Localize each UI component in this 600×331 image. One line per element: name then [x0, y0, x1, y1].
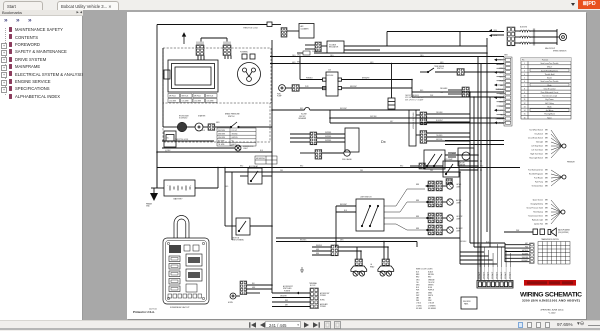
svg-text:BLU: BLU: [486, 242, 489, 244]
svg-text:BRN: BRN: [545, 178, 548, 180]
bookmark icon: MAINFRAME: [9, 64, 12, 69]
engine label rows: [168, 94, 217, 103]
svg-text:BLU/BRN: BLU/BRN: [522, 253, 528, 255]
bookmarks tree: [5, 28, 6, 95]
svg-text:Fuel Solenoid Drive: Fuel Solenoid Drive: [528, 169, 543, 172]
wire: [492, 34, 504, 36]
bookmarks panel: [0, 10, 83, 320]
wire: [227, 56, 229, 60]
svg-text:WIRE COLOR CODES: WIRE COLOR CODES: [416, 269, 432, 271]
svg-text:Circuit Break Switch: Circuit Break Switch: [528, 137, 543, 140]
svg-text:WHT/BLK: WHT/BLK: [522, 250, 528, 252]
wire: [412, 91, 504, 93]
svg-text:CLEANER: CLEANER: [301, 28, 310, 31]
wire: [329, 110, 331, 123]
svg-text:BLK: BLK: [252, 283, 255, 285]
fuel pump: [279, 85, 286, 92]
nav buttons: [246, 320, 346, 330]
wire: [247, 292, 260, 294]
wire: [239, 126, 272, 128]
svg-text:RED/BLK: RED/BLK: [460, 241, 466, 243]
wire: [310, 109, 420, 111]
connector speed sensor C5: [507, 27, 515, 46]
air cleaner box: [299, 24, 314, 39]
red stamp: [524, 280, 576, 286]
svg-text:RED WIRE: RED WIRE: [218, 130, 225, 132]
wire: [445, 154, 478, 156]
wire: [459, 172, 461, 220]
wire: [290, 137, 310, 139]
svg-text:Spare: Spare: [547, 116, 552, 119]
svg-text:BLU/WHT: BLU/WHT: [436, 120, 443, 122]
svg-text:LT BLU: LT BLU: [416, 303, 421, 305]
wire: [322, 152, 344, 154]
svg-text:4: 4: [524, 74, 525, 76]
wire: [505, 244, 530, 246]
page sheet: [127, 12, 586, 319]
svg-text:Dash Wires/Brightness: Dash Wires/Brightness: [541, 69, 558, 72]
wire main bus: [157, 167, 520, 169]
svg-text:POWER: POWER: [320, 306, 327, 308]
wire: [427, 121, 470, 123]
wire: [411, 80, 413, 98]
svg-text:GRN: GRN: [230, 145, 233, 147]
svg-text:8: 8: [524, 88, 525, 90]
wire vertical x272 lower: [271, 168, 273, 294]
svg-text:Fuel Heater: Fuel Heater: [534, 177, 543, 180]
backup alarm: [533, 228, 556, 236]
svg-text:THROTTLE LOCK: THROTTLE LOCK: [175, 139, 189, 141]
wire: [442, 185, 446, 187]
svg-text:SWITCH: SWITCH: [228, 116, 235, 118]
svg-text:Throttle Hold: Throttle Hold: [545, 73, 555, 76]
svg-text:LH STOP: LH STOP: [456, 216, 462, 218]
wire: [448, 93, 462, 95]
svg-text:METER: METER: [460, 165, 466, 167]
svg-text:PRESSURE: PRESSURE: [567, 162, 575, 164]
svg-text:SOLENOID: SOLENOID: [179, 118, 188, 120]
wire: [272, 24, 281, 26]
svg-text:BLU: BLU: [416, 287, 419, 289]
svg-text:12V OUT: 12V OUT: [232, 130, 238, 132]
wire: [287, 30, 299, 32]
coil core marks: [532, 29, 534, 46]
svg-text:CIRCUIT: CIRCUIT: [299, 116, 305, 118]
wire: [247, 288, 272, 290]
wire: [230, 56, 232, 60]
wire bottom feed: [460, 255, 488, 257]
svg-text:Ignition Rail: Ignition Rail: [534, 223, 543, 226]
wire: [464, 71, 504, 73]
connector relay K2: [446, 179, 452, 185]
wire: [387, 31, 504, 33]
svg-text:RED/WHT: RED/WHT: [340, 204, 347, 206]
wire bus2: [225, 171, 460, 173]
wire: [317, 133, 345, 135]
wire: [445, 160, 478, 162]
svg-text:Horn Backup: Horn Backup: [533, 211, 543, 214]
connector tail 1b: [436, 181, 442, 191]
wire: [445, 140, 504, 142]
wire: [336, 211, 356, 213]
wire: [427, 140, 470, 142]
wire: [272, 292, 310, 294]
arrows: [489, 29, 492, 32]
connector canopy: [462, 87, 469, 97]
connector fuel gauge: [315, 150, 322, 160]
svg-text:WHT/BRL: WHT/BRL: [325, 136, 331, 138]
wire: [387, 247, 389, 259]
wire: [459, 169, 478, 171]
wire: [470, 242, 505, 244]
svg-text:GRD-T: GRD-T: [547, 67, 552, 69]
wire: [420, 71, 428, 73]
svg-text:GROUNDING: GROUNDING: [256, 158, 265, 160]
grounding table: [255, 156, 277, 164]
svg-text:GRY: GRY: [416, 292, 419, 294]
wire: [305, 48, 315, 50]
wire: [336, 205, 356, 207]
svg-text:Talk Light: Talk Light: [536, 141, 544, 144]
svg-text:BLK WIRE: BLK WIRE: [218, 141, 225, 143]
svg-text:BRN/WHT: BRN/WHT: [350, 86, 357, 88]
svg-text:Spare Screen: Spare Screen: [533, 199, 543, 202]
svg-text:Terminate Bare: Terminate Bare: [532, 185, 544, 188]
wire bottom feed: [460, 263, 497, 265]
svg-text:Transmission Green: Transmission Green: [528, 215, 543, 218]
wire: [505, 261, 530, 263]
svg-text:Screw Pressure Tooth: Screw Pressure Tooth: [527, 207, 544, 210]
svg-text:RED/BLK: RED/BLK: [300, 240, 306, 242]
svg-text:BRN: BRN: [545, 200, 548, 202]
wire: [299, 87, 326, 89]
wire: [157, 151, 272, 153]
fuse panel handle: [174, 216, 189, 238]
connector fuel pump: [292, 85, 299, 92]
svg-text:V-1202: V-1202: [549, 312, 557, 314]
svg-text:SPK PLUG: SPK PLUG: [169, 96, 176, 98]
wire: [448, 89, 462, 91]
svg-text:BRN: BRN: [545, 150, 548, 152]
connector tail 3b: [436, 213, 442, 223]
inline fuse: [303, 51, 310, 55]
wire: [162, 108, 164, 127]
flywheel alternator: [238, 54, 261, 86]
svg-text:FUSE/RELAY LAYOUT: FUSE/RELAY LAYOUT: [170, 306, 190, 309]
wire: [515, 30, 520, 32]
wire: [416, 242, 418, 248]
svg-text:COIL WIRE: COIL WIRE: [194, 101, 201, 103]
wiring color mini table: [217, 128, 256, 146]
wire: [195, 187, 218, 189]
svg-text:9: 9: [524, 92, 525, 94]
svg-text:Printed in U.S.A.: Printed in U.S.A.: [133, 310, 155, 314]
connector TPS A: [420, 112, 427, 125]
fuel canister: [164, 131, 176, 147]
wire: [504, 243, 506, 262]
bookmark icon: SAFETY &amp; MAINTENANCE: [9, 49, 12, 54]
svg-text:GRY: GRY: [390, 121, 393, 123]
connector twin sense: [457, 69, 464, 76]
light switch: [356, 199, 384, 231]
status bar: [0, 320, 600, 331]
wire: [459, 165, 478, 167]
wire: [262, 175, 272, 177]
svg-text:BRN: BRN: [416, 274, 419, 276]
svg-text:Left Turn Beam: Left Turn Beam: [531, 149, 543, 152]
tab bar: [0, 0, 600, 11]
svg-text:Key Power: Key Power: [545, 98, 554, 101]
svg-text:3200 (S/N AJNS11001 AND ABOVE): 3200 (S/N AJNS11001 AND ABOVE): [522, 299, 580, 303]
svg-text:GROUND: GROUND: [232, 133, 238, 135]
bookmark icon: ELECTRICAL SYSTEM &amp; ANALYSIS: [9, 71, 12, 76]
svg-text:BLK: BLK: [452, 153, 455, 155]
svg-text:WHT/BRL: WHT/BRL: [325, 140, 331, 142]
wire: [556, 29, 558, 45]
wire: [486, 38, 488, 53]
wire: [299, 57, 301, 80]
svg-text:Charging Battery: Charging Battery: [530, 203, 543, 206]
frame ground: [150, 193, 158, 201]
throttle lock module: [267, 22, 272, 27]
svg-text:BLK: BLK: [260, 150, 263, 152]
svg-text:WHT: WHT: [416, 295, 419, 297]
wire: [247, 284, 272, 286]
wire vertical bus x272: [271, 40, 273, 168]
svg-text:COIL WIRE: COIL WIRE: [207, 101, 214, 103]
four wheel drive switch: [424, 150, 445, 169]
wire: [428, 201, 433, 203]
wire: [224, 56, 226, 60]
wire: [342, 87, 413, 89]
wire: [153, 188, 155, 193]
cab compartment dashed extension: [163, 103, 270, 142]
svg-text:BRN: BRN: [545, 158, 548, 160]
wire: [272, 306, 310, 308]
svg-text:Hydraulic Light: Hydraulic Light: [532, 219, 544, 222]
hour meter: [458, 148, 474, 166]
svg-text:WHT/BRL: WHT/BRL: [325, 132, 331, 134]
wire: [276, 237, 460, 239]
svg-text:PNK: PNK: [525, 247, 528, 249]
wire: [344, 45, 387, 47]
wire: [428, 185, 433, 187]
wire: [474, 246, 505, 248]
bookmark icon: FOREWORD: [9, 42, 12, 47]
speed sensor: [559, 33, 566, 40]
svg-text:BRN: BRN: [545, 170, 548, 172]
wire: [330, 122, 504, 124]
fuel gauge: [344, 150, 350, 156]
wire: [530, 36, 557, 38]
panel toolbar icons: [4, 18, 11, 24]
wire: [410, 165, 419, 167]
connector tail 4b: [436, 225, 442, 235]
svg-text:FLYWHEEL: FLYWHEEL: [240, 52, 248, 54]
svg-text:BRN: BRN: [545, 154, 548, 156]
wire: [338, 246, 388, 248]
svg-text:HORN: HORN: [320, 300, 324, 302]
svg-text:THROTTLE LOCK: THROTTLE LOCK: [243, 28, 259, 30]
svg-text:Rear Differential Circuit: Rear Differential Circuit: [541, 91, 559, 94]
CDI module: [323, 72, 342, 96]
wire: [442, 201, 446, 203]
connector terminal block: [310, 288, 318, 309]
svg-text:BROWN: BROWN: [428, 274, 434, 276]
svg-text:YELLOW: YELLOW: [428, 282, 435, 284]
svg-text:SPK PLUG: SPK PLUG: [194, 96, 201, 98]
wire: [335, 206, 337, 247]
svg-text:10: 10: [524, 96, 526, 98]
svg-text:SWITCHED: SWITCHED: [283, 288, 292, 290]
wire: [217, 168, 219, 189]
wire: [197, 56, 199, 61]
svg-text:Dx: Dx: [381, 140, 386, 144]
wire: [156, 152, 158, 188]
svg-text:6: 6: [524, 81, 525, 83]
wire: [236, 295, 240, 297]
wire: [225, 225, 236, 227]
svg-text:GRN: GRN: [416, 285, 419, 287]
throttle position sensor: [409, 110, 416, 146]
svg-text:BRN: BRN: [545, 204, 548, 206]
bookmark icon: CONTENTS: [9, 34, 12, 39]
wire vertical x232: [231, 172, 233, 240]
connector transmission: [530, 243, 535, 263]
wire: [448, 156, 456, 158]
connector brake: [310, 132, 317, 145]
comb hatch above connectors: [196, 42, 198, 46]
connector engine C2: [196, 45, 204, 56]
engine compartment (dashed): [163, 48, 271, 103]
wire: [427, 136, 470, 138]
wire: [290, 133, 310, 135]
ignition switch relay: [236, 218, 250, 235]
svg-text:Key Switch: Key Switch: [535, 133, 543, 136]
svg-text:RED: RED: [285, 300, 288, 302]
svg-text:BRN: BRN: [545, 220, 548, 222]
svg-text:14: 14: [524, 110, 526, 112]
svg-text:UNDERHOOD: UNDERHOOD: [243, 146, 254, 148]
wire: [445, 144, 504, 146]
wire: [428, 217, 433, 219]
wire ORG: [270, 56, 504, 58]
svg-text:BLK: BLK: [416, 272, 419, 274]
connector tail 2a: [428, 197, 434, 207]
wire: [530, 30, 557, 32]
wire: [187, 126, 195, 128]
svg-text:16: 16: [524, 117, 526, 119]
fuses: [169, 256, 180, 262]
stator nested box: [164, 60, 218, 92]
svg-text:(PRINTED JUNE 2010): (PRINTED JUNE 2010): [541, 310, 564, 312]
svg-text:15: 15: [524, 114, 526, 116]
svg-text:GRN/YEL: GRN/YEL: [436, 139, 443, 141]
svg-text:3: 3: [524, 70, 525, 72]
svg-text:GRN: GRN: [370, 62, 373, 64]
wire: [321, 45, 327, 47]
wire: [203, 56, 205, 61]
wire: [427, 117, 470, 119]
svg-text:DK GREEN: DK GREEN: [428, 308, 436, 310]
svg-text:Seat Lever/Two Throttle: Seat Lever/Two Throttle: [541, 80, 559, 83]
svg-text:BRN: BRN: [416, 184, 419, 186]
wire: [515, 36, 520, 38]
small ground: [300, 267, 304, 272]
wire: [330, 117, 504, 119]
wire: [300, 79, 323, 81]
wire: [162, 147, 235, 149]
svg-text:GRN: GRN: [292, 62, 295, 64]
svg-text:BRN: BRN: [545, 186, 548, 188]
svg-text:ORG WIRE: ORG WIRE: [218, 137, 225, 139]
wire: [387, 45, 487, 47]
fuse panel body: [163, 238, 209, 304]
junction dots: [271, 56, 273, 58]
svg-text:11: 11: [524, 99, 526, 101]
wire: [459, 32, 461, 47]
connector K2 feed: [419, 163, 425, 169]
wire: [427, 132, 470, 134]
svg-text:Two Wheel Switch: Two Wheel Switch: [529, 129, 543, 132]
bookmark icon: MAINTENANCE SAFETY: [9, 27, 12, 32]
connector tail 1a: [428, 181, 434, 191]
svg-text:SPK PLUG: SPK PLUG: [182, 96, 189, 98]
svg-text:LT GRN: LT GRN: [416, 305, 421, 307]
wire: [448, 152, 456, 154]
wire vertical x225: [224, 168, 226, 227]
svg-text:Blank: Blank: [547, 106, 551, 108]
svg-text:GRN: GRN: [252, 287, 255, 289]
svg-text:Pin: Pin: [522, 59, 524, 61]
pin function table: [521, 58, 571, 120]
relay K2: [443, 161, 459, 177]
wire x470: [469, 92, 471, 243]
wire: [317, 137, 345, 139]
svg-text:FUEL: FUEL: [277, 94, 281, 96]
svg-text:Drive B Control: Drive B Control: [544, 87, 556, 90]
svg-text:COIL WIRE: COIL WIRE: [182, 101, 189, 103]
svg-text:BLK/ORG: BLK/ORG: [520, 27, 528, 29]
wire: [305, 44, 315, 46]
wire: [276, 241, 417, 243]
svg-text:PNK: PNK: [430, 170, 433, 172]
svg-text:PINK: PINK: [428, 300, 432, 302]
bookmark icon: DRIVE SYSTEM: [9, 57, 12, 62]
svg-text:GRN: GRN: [340, 240, 343, 242]
fuse panel label block: [169, 245, 181, 253]
svg-text:PUMP: PUMP: [277, 96, 282, 98]
indicator panel: [461, 297, 477, 309]
svg-text:ORG/WHT: ORG/WHT: [280, 296, 287, 298]
wire: [312, 254, 331, 256]
svg-text:GRY: GRY: [525, 243, 528, 245]
svg-text:Transmission 2-spd: Transmission 2-spd: [542, 95, 557, 98]
svg-text:SPK PLUG: SPK PLUG: [207, 96, 214, 98]
svg-text:Blank: Blank: [547, 85, 551, 87]
svg-text:1: 1: [524, 63, 525, 65]
wire: [391, 64, 393, 99]
voltage regulator: [327, 41, 344, 53]
svg-text:BRN: BRN: [545, 174, 548, 176]
connector headlight: [382, 259, 390, 266]
svg-text:Right Turn Beam: Right Turn Beam: [530, 153, 543, 156]
svg-text:BRN: BRN: [545, 130, 548, 132]
svg-text:BLU: BLU: [202, 130, 205, 132]
svg-text:WHITE: WHITE: [428, 295, 433, 297]
svg-text:BRN: BRN: [545, 212, 548, 214]
wire GRN: [270, 63, 504, 65]
